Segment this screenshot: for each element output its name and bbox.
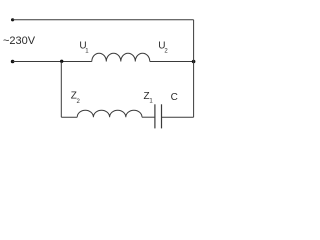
wire mid-left (13, 61, 92, 63)
junction node A (60, 60, 63, 63)
wire bottom-right (capacitor to right rail) (162, 116, 194, 118)
wire bottom-mid (Z2 to capacitor) (142, 116, 155, 118)
svg-text:1: 1 (85, 48, 89, 54)
terminal node bottom-left (11, 60, 15, 64)
svg-text:~230V: ~230V (3, 35, 36, 47)
junction node B on right rail (192, 60, 196, 64)
capacitor C left plate (154, 104, 156, 128)
svg-text:1: 1 (149, 98, 153, 104)
wire mid-right (150, 61, 194, 63)
inductor Z2 winding (77, 110, 142, 117)
svg-text:2: 2 (77, 99, 81, 105)
svg-text:C: C (171, 92, 178, 103)
capacitor C right plate (161, 104, 163, 128)
inductor U1-U2 winding (92, 53, 150, 61)
wire vertical from junction A down (60, 62, 62, 118)
wire right vertical rail (193, 20, 195, 117)
wire top horizontal (13, 19, 194, 21)
terminal node top-left (11, 18, 14, 21)
svg-text:2: 2 (164, 49, 168, 55)
wire bottom-left (61, 116, 77, 118)
